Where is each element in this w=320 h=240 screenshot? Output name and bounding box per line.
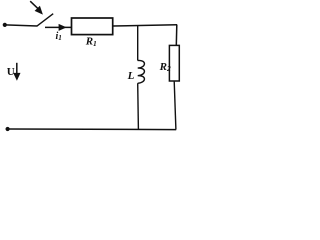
wire (L branch drop) [137, 25, 139, 60]
wire (top-right corner drop) [175, 25, 178, 46]
svg-text:R1: R1 [85, 36, 97, 48]
wire (bottom rail) [8, 128, 177, 131]
terminal node (bottom-left) [6, 127, 10, 131]
svg-text:L: L [127, 70, 135, 82]
resistor R1 [72, 18, 113, 35]
wire [174, 81, 176, 130]
voltage arrow U [13, 63, 20, 81]
wire [137, 83, 140, 129]
wire [5, 25, 37, 26]
switch closing arrow [30, 1, 43, 14]
terminal node (top-left) [3, 23, 7, 27]
inductor L [138, 60, 145, 83]
current arrow i1 [59, 24, 67, 31]
svg-text:U: U [7, 66, 15, 78]
wire [45, 26, 72, 28]
switch S blade [37, 14, 53, 27]
resistor R2 [169, 45, 179, 81]
svg-text:i1: i1 [56, 31, 62, 42]
wire [113, 25, 178, 26]
